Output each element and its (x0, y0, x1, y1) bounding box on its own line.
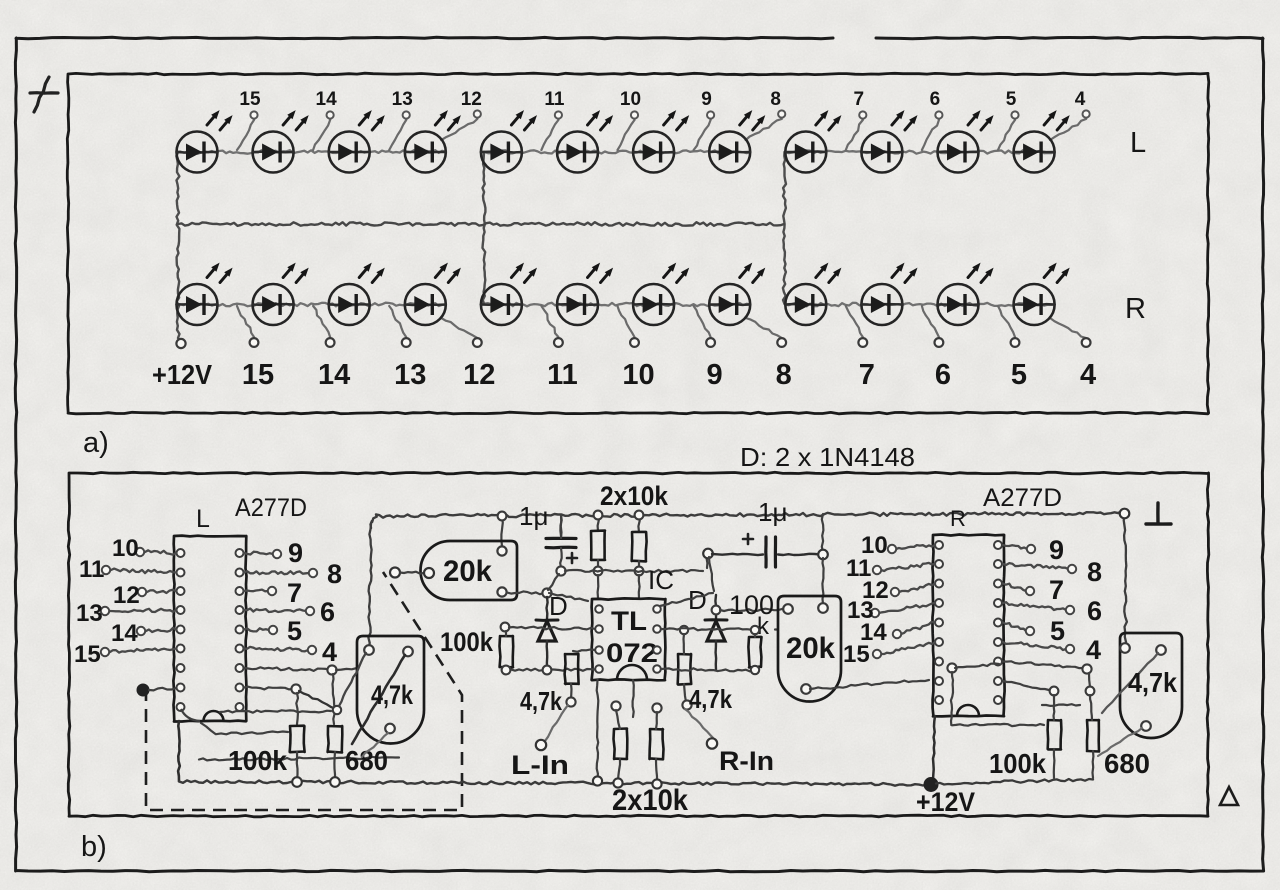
svg-text:D: D (688, 585, 707, 615)
svg-text:4: 4 (1086, 635, 1101, 665)
svg-text:5: 5 (287, 616, 302, 646)
svg-text:11: 11 (547, 359, 578, 391)
svg-text:7: 7 (287, 578, 302, 608)
svg-text:6: 6 (935, 359, 951, 391)
svg-text:680: 680 (1104, 748, 1150, 779)
svg-text:5: 5 (1006, 89, 1017, 110)
svg-text:4,7k: 4,7k (371, 680, 414, 710)
svg-text:4: 4 (1075, 89, 1086, 110)
svg-text:8: 8 (1087, 557, 1102, 587)
svg-text:13: 13 (392, 89, 413, 110)
svg-text:10: 10 (620, 89, 641, 110)
svg-text:4,7k: 4,7k (689, 684, 732, 714)
svg-text:2x10k: 2x10k (600, 481, 669, 511)
svg-text:12: 12 (461, 89, 482, 110)
svg-text:1μ: 1μ (519, 501, 548, 531)
svg-text:D: 2 x 1N4148: D: 2 x 1N4148 (740, 442, 915, 472)
svg-text:5: 5 (1011, 359, 1027, 391)
svg-text:680: 680 (345, 745, 388, 776)
svg-text:15: 15 (239, 89, 261, 110)
svg-text:10: 10 (622, 359, 654, 391)
svg-text:13: 13 (394, 359, 426, 391)
svg-text:a): a) (83, 427, 109, 459)
svg-text:R: R (950, 506, 966, 531)
svg-text:+12V: +12V (152, 359, 212, 390)
svg-text:6: 6 (1087, 596, 1102, 626)
svg-text:A277D: A277D (983, 484, 1062, 512)
svg-text:100k: 100k (228, 745, 287, 776)
svg-text:2x10k: 2x10k (612, 784, 688, 817)
svg-text:11: 11 (544, 89, 565, 110)
svg-text:20k: 20k (786, 632, 835, 665)
svg-text:7: 7 (859, 359, 875, 391)
svg-text:L: L (196, 505, 210, 533)
svg-text:12: 12 (113, 582, 140, 609)
svg-text:8: 8 (327, 559, 342, 589)
svg-text:20k: 20k (443, 555, 492, 588)
svg-text:+12V: +12V (916, 787, 975, 817)
svg-text:4,7k: 4,7k (1128, 667, 1177, 698)
svg-text:15: 15 (843, 641, 870, 668)
svg-text:100k: 100k (989, 748, 1046, 779)
svg-text:R-In: R-In (719, 746, 774, 776)
svg-text:072: 072 (606, 638, 658, 668)
svg-text:L-In: L-In (511, 750, 569, 780)
svg-text:4: 4 (1080, 359, 1096, 391)
svg-text:12: 12 (463, 359, 495, 391)
svg-text:14: 14 (316, 89, 338, 110)
svg-text:5: 5 (1050, 616, 1065, 646)
svg-text:6: 6 (320, 597, 335, 627)
svg-text:9: 9 (701, 89, 712, 110)
svg-text:1μ: 1μ (758, 497, 787, 527)
svg-text:13: 13 (76, 600, 103, 627)
svg-text:4,7k: 4,7k (520, 686, 562, 716)
svg-text:TL: TL (611, 606, 647, 636)
svg-text:100k: 100k (440, 627, 494, 657)
svg-text:9: 9 (1049, 535, 1064, 565)
svg-text:10: 10 (112, 535, 139, 562)
svg-text:15: 15 (74, 641, 101, 668)
svg-text:b): b) (81, 831, 107, 863)
svg-text:14: 14 (111, 620, 138, 647)
svg-text:A277D: A277D (235, 494, 307, 522)
svg-text:R: R (1125, 293, 1146, 325)
svg-text:9: 9 (288, 538, 303, 568)
svg-text:11: 11 (79, 556, 104, 583)
svg-text:7: 7 (1049, 575, 1064, 605)
svg-text:IC: IC (648, 565, 674, 595)
svg-text:14: 14 (318, 359, 350, 391)
svg-text:9: 9 (707, 359, 723, 391)
svg-text:8: 8 (770, 89, 781, 110)
svg-text:15: 15 (242, 359, 274, 391)
svg-text:8: 8 (776, 359, 792, 391)
svg-text:4: 4 (322, 637, 337, 667)
svg-text:6: 6 (930, 89, 941, 110)
svg-text:L: L (1130, 127, 1146, 159)
svg-text:7: 7 (854, 89, 865, 110)
